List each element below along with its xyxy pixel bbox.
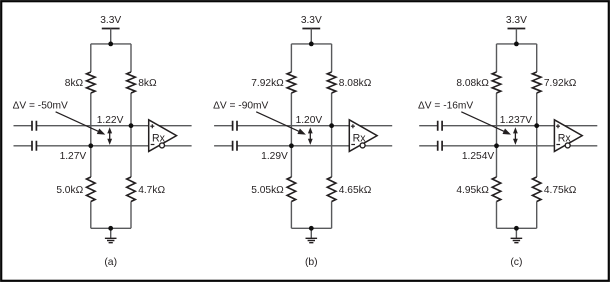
junction dot: top line / right divider node (c) — [534, 123, 539, 128]
junction dot: ground node (c) — [514, 226, 519, 231]
wire: bottom rail (b) — [291, 227, 331, 229]
double-headed arrow between lines (b) — [308, 127, 313, 145]
resistor 5.05kΩ bottom-left (b) — [287, 177, 296, 202]
svg-text:Rx: Rx — [353, 132, 367, 144]
op-amp receiver Rx (c) — [554, 120, 582, 152]
wire: right branch (a) — [130, 44, 132, 228]
op-amp receiver Rx (a) — [149, 120, 177, 152]
svg-text:4.7kΩ: 4.7kΩ — [138, 185, 165, 196]
svg-text:1.27V: 1.27V — [60, 151, 87, 162]
svg-text:(b): (b) — [305, 257, 318, 268]
junction dot: top line / right divider node (b) — [329, 123, 334, 128]
wire: left branch (b) — [290, 44, 292, 228]
power supply 3.3V (c) — [506, 15, 527, 44]
svg-text:ΔV = -16mV: ΔV = -16mV — [418, 101, 473, 112]
svg-text:8kΩ: 8kΩ — [65, 78, 84, 89]
junction dot: supply node (c) — [514, 42, 519, 47]
wire: top differential input line (c) — [419, 125, 597, 127]
resistor 7.92kΩ top-left (b) — [287, 72, 296, 93]
svg-text:7.92kΩ: 7.92kΩ — [544, 78, 577, 89]
inverting output bubble (a) — [160, 143, 165, 148]
junction dot: supply node (b) — [309, 42, 314, 47]
junction dot: ground node (b) — [309, 226, 314, 231]
svg-text:4.65kΩ: 4.65kΩ — [339, 185, 372, 196]
power supply 3.3V (b) — [301, 15, 322, 44]
svg-text:(a): (a) — [104, 257, 117, 268]
svg-text:(c): (c) — [510, 257, 522, 268]
resistor 8kΩ top-right (a) — [127, 72, 136, 93]
wire: bottom differential input line (a) — [14, 145, 192, 147]
svg-text:1.29V: 1.29V — [261, 151, 288, 162]
resistor 4.65kΩ bottom-right (b) — [327, 177, 336, 202]
svg-text:3.3V: 3.3V — [506, 15, 527, 26]
capacitor on bottom line (b) — [233, 141, 237, 151]
wire: top rail (b) — [291, 43, 331, 45]
resistor 8.08kΩ top-left (c) — [492, 72, 501, 93]
svg-text:5.05kΩ: 5.05kΩ — [251, 185, 284, 196]
wire: bottom rail (c) — [497, 227, 537, 229]
op-amp receiver Rx (b) — [349, 120, 377, 152]
svg-text:7.92kΩ: 7.92kΩ — [251, 78, 284, 89]
resistor 4.95kΩ bottom-left (c) — [492, 177, 501, 202]
power supply 3.3V (a) — [100, 15, 121, 44]
annotation arrow from deltaV label (a) — [56, 112, 106, 135]
wire: left branch (a) — [90, 44, 92, 228]
junction dot: bottom line / left divider node (c) — [494, 143, 499, 148]
svg-text:ΔV = -50mV: ΔV = -50mV — [13, 101, 68, 112]
double-headed arrow between lines (c) — [513, 127, 518, 145]
inverting output bubble (c) — [565, 143, 570, 148]
capacitor on bottom line (a) — [32, 141, 36, 151]
svg-text:4.75kΩ: 4.75kΩ — [544, 185, 577, 196]
junction dot: ground node (a) — [108, 226, 113, 231]
ground (c) — [511, 228, 523, 242]
junction dot: bottom line / left divider node (a) — [88, 143, 93, 148]
resistor 7.92kΩ top-right (c) — [532, 72, 541, 93]
svg-text:Rx: Rx — [558, 132, 572, 144]
ground (a) — [105, 228, 117, 242]
wire: right branch (c) — [536, 44, 538, 228]
svg-text:1.20V: 1.20V — [296, 115, 323, 126]
wire: bottom differential input line (b) — [214, 145, 392, 147]
svg-text:5.0kΩ: 5.0kΩ — [56, 185, 83, 196]
svg-text:1.237V: 1.237V — [500, 115, 532, 126]
junction dot: supply node (a) — [108, 42, 113, 47]
svg-text:8kΩ: 8kΩ — [138, 78, 157, 89]
inverting output bubble (b) — [360, 143, 365, 148]
svg-text:Rx: Rx — [152, 132, 166, 144]
resistor 5.0kΩ bottom-left (a) — [87, 177, 96, 202]
junction dot: top line / right divider node (a) — [129, 123, 134, 128]
svg-text:1.22V: 1.22V — [97, 115, 124, 126]
annotation arrow from deltaV label (b) — [256, 112, 306, 135]
wire: top rail (a) — [91, 43, 131, 45]
wire: top rail (c) — [497, 43, 537, 45]
svg-text:ΔV = -90mV: ΔV = -90mV — [213, 101, 268, 112]
svg-text:3.3V: 3.3V — [100, 15, 121, 26]
capacitor on top line (a) — [32, 121, 36, 131]
annotation arrow from deltaV label (c) — [461, 112, 511, 135]
wire: bottom differential input line (c) — [419, 145, 597, 147]
wire: left branch (c) — [496, 44, 498, 228]
ground (b) — [306, 228, 318, 242]
svg-text:8.08kΩ: 8.08kΩ — [456, 78, 489, 89]
resistor 4.7kΩ bottom-right (a) — [127, 177, 136, 202]
resistor 4.75kΩ bottom-right (c) — [532, 177, 541, 202]
wire: bottom rail (a) — [91, 227, 131, 229]
capacitor on bottom line (c) — [438, 141, 442, 151]
junction dot: bottom line / left divider node (b) — [289, 143, 294, 148]
double-headed arrow between lines (a) — [107, 127, 112, 145]
wire: top differential input line (b) — [214, 125, 392, 127]
resistor 8.08kΩ top-right (b) — [327, 72, 336, 93]
svg-text:1.254V: 1.254V — [462, 151, 494, 162]
capacitor on top line (b) — [233, 121, 237, 131]
svg-text:4.95kΩ: 4.95kΩ — [456, 185, 489, 196]
wire: top differential input line (a) — [14, 125, 192, 127]
capacitor on top line (c) — [438, 121, 442, 131]
svg-text:8.08kΩ: 8.08kΩ — [339, 78, 372, 89]
resistor 8kΩ top-left (a) — [87, 72, 96, 93]
wire: right branch (b) — [331, 44, 333, 228]
svg-text:3.3V: 3.3V — [301, 15, 322, 26]
